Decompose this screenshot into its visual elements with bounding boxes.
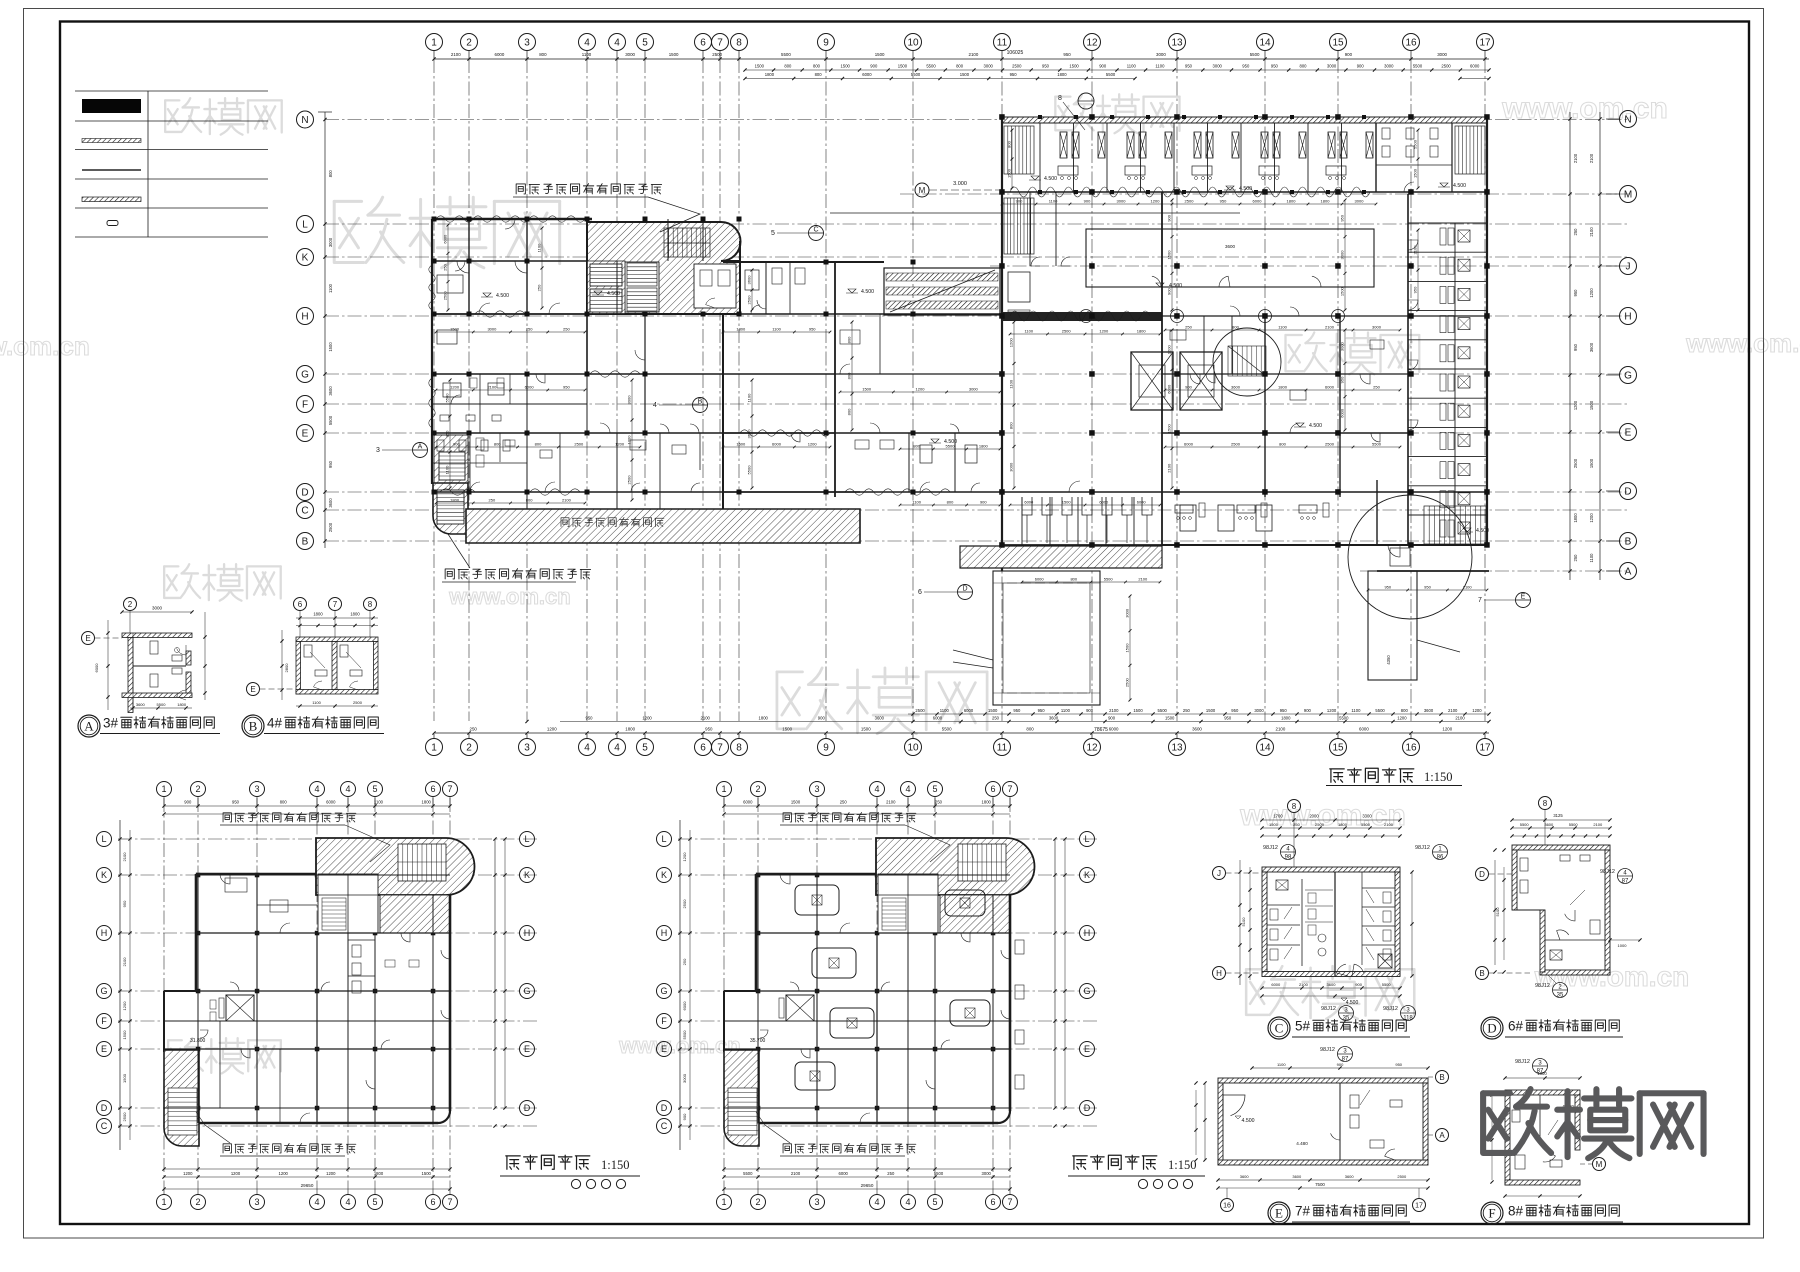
svg-text:8: 8: [1543, 799, 1548, 808]
svg-text:950: 950: [445, 430, 450, 437]
svg-text:5500: 5500: [1382, 982, 1392, 987]
svg-text:1800: 1800: [625, 727, 635, 732]
svg-text:4.500: 4.500: [1453, 183, 1466, 189]
svg-text:1800: 1800: [1321, 199, 1331, 204]
svg-text:2100: 2100: [1276, 727, 1286, 732]
svg-text:3600: 3600: [875, 716, 885, 721]
svg-text:1100: 1100: [1008, 379, 1013, 388]
svg-text:2500: 2500: [712, 52, 722, 57]
svg-text:5500: 5500: [157, 702, 167, 707]
svg-text:4: 4: [345, 784, 350, 794]
svg-text:5500: 5500: [1413, 64, 1423, 69]
svg-text:98J12: 98J12: [1515, 1059, 1530, 1065]
svg-text:1: 1: [431, 38, 437, 49]
svg-text:950: 950: [1224, 716, 1232, 721]
svg-text:F: F: [101, 1016, 107, 1026]
svg-text:10: 10: [907, 743, 919, 754]
svg-text:6000: 6000: [326, 800, 336, 805]
svg-text:1100: 1100: [1061, 708, 1071, 713]
svg-text:3000: 3000: [1254, 708, 1264, 713]
svg-text:3000: 3000: [682, 1073, 687, 1083]
svg-text:6000: 6000: [1137, 500, 1147, 505]
svg-text:3600: 3600: [1049, 716, 1059, 721]
svg-text:5500: 5500: [1569, 822, 1579, 827]
svg-text:5500: 5500: [1520, 822, 1530, 827]
svg-text:3000: 3000: [1384, 64, 1394, 69]
svg-text:250: 250: [840, 800, 848, 805]
svg-text:6000: 6000: [1339, 408, 1344, 418]
svg-text:K: K: [1084, 870, 1090, 880]
svg-text:2100: 2100: [1413, 245, 1418, 255]
svg-text:4.500: 4.500: [1239, 186, 1252, 192]
svg-text:2100: 2100: [1384, 822, 1394, 827]
svg-text:2500: 2500: [1125, 677, 1130, 687]
svg-text:2100: 2100: [562, 498, 572, 503]
svg-text:3600: 3600: [1292, 1174, 1302, 1179]
svg-text:5: 5: [372, 1197, 377, 1207]
svg-text:900: 900: [1185, 385, 1192, 390]
svg-text:3000: 3000: [1355, 199, 1365, 204]
svg-text:E: E: [661, 1044, 667, 1054]
svg-text:1500: 1500: [862, 387, 872, 392]
svg-text:35: 35: [1343, 1016, 1350, 1022]
svg-text:1200: 1200: [1167, 345, 1172, 355]
svg-text:118: 118: [1403, 1016, 1413, 1022]
svg-text:900: 900: [1345, 52, 1353, 57]
svg-text:3000: 3000: [1124, 608, 1129, 618]
svg-text:900: 900: [1108, 716, 1116, 721]
svg-text:www.om.cn: www.om.cn: [1685, 328, 1800, 358]
svg-text:H: H: [101, 928, 108, 938]
svg-text:D: D: [1624, 487, 1631, 498]
svg-text:1200: 1200: [1589, 513, 1594, 523]
svg-text:J: J: [1217, 869, 1221, 878]
svg-text:1200: 1200: [183, 1171, 193, 1176]
svg-text:1500: 1500: [755, 64, 765, 69]
svg-text:1200: 1200: [682, 852, 687, 862]
svg-text:1100: 1100: [1127, 64, 1137, 69]
svg-text:K: K: [524, 870, 530, 880]
svg-text:A: A: [418, 444, 423, 451]
svg-text:4: 4: [314, 784, 319, 794]
svg-text:950: 950: [1242, 64, 1250, 69]
svg-text:950: 950: [1220, 199, 1227, 204]
svg-text:950: 950: [232, 800, 240, 805]
svg-text:N: N: [301, 115, 308, 126]
svg-text:950: 950: [1271, 64, 1279, 69]
svg-text:1500: 1500: [1069, 64, 1079, 69]
svg-text:3.000: 3.000: [953, 181, 967, 187]
svg-text:1200: 1200: [326, 1171, 336, 1176]
svg-text:1500: 1500: [1133, 708, 1143, 713]
svg-text:950: 950: [1339, 214, 1344, 221]
svg-text:1800: 1800: [1278, 385, 1288, 390]
svg-text:98: 98: [1285, 855, 1292, 861]
svg-text:2100: 2100: [1589, 227, 1594, 237]
svg-text:5100: 5100: [1241, 917, 1246, 927]
svg-text:1100: 1100: [772, 327, 781, 332]
svg-text:950: 950: [1013, 708, 1021, 713]
svg-text:250: 250: [1293, 822, 1300, 827]
svg-text:H: H: [301, 312, 308, 323]
svg-text:98J12: 98J12: [1263, 845, 1278, 851]
svg-text:98J12: 98J12: [1320, 1047, 1335, 1053]
svg-text:6000: 6000: [525, 385, 535, 390]
svg-text:1200: 1200: [1327, 708, 1337, 713]
svg-text:1200: 1200: [1009, 338, 1014, 348]
svg-text:3: 3: [814, 784, 819, 794]
svg-text:800: 800: [328, 170, 333, 178]
svg-text:C: C: [301, 506, 308, 517]
svg-text:1200: 1200: [1573, 400, 1578, 410]
svg-text:B: B: [1625, 537, 1632, 548]
svg-text:6000: 6000: [839, 1171, 849, 1176]
svg-text:950: 950: [328, 460, 333, 468]
svg-text:2500: 2500: [1573, 458, 1578, 468]
svg-text:E: E: [1521, 594, 1526, 601]
svg-text:1: 1: [161, 784, 166, 794]
svg-text:1800: 1800: [177, 702, 187, 707]
svg-text:2100: 2100: [1138, 577, 1148, 582]
svg-text:250: 250: [563, 327, 570, 332]
svg-text:250: 250: [1183, 708, 1191, 713]
svg-text:6000: 6000: [1024, 500, 1034, 505]
svg-text:B: B: [698, 399, 703, 406]
svg-text:1500: 1500: [960, 72, 970, 77]
svg-text:3000: 3000: [982, 1171, 992, 1176]
svg-text:250: 250: [489, 498, 496, 503]
svg-text:31.800: 31.800: [190, 1038, 206, 1044]
svg-text:800: 800: [535, 442, 542, 447]
svg-text:H: H: [1216, 969, 1222, 978]
svg-text:www.om.cn: www.om.cn: [618, 1033, 740, 1058]
svg-text:15: 15: [1332, 743, 1344, 754]
svg-text:800: 800: [784, 64, 792, 69]
svg-text:106025: 106025: [1007, 50, 1024, 56]
svg-text:2100: 2100: [1593, 822, 1603, 827]
svg-text:3000: 3000: [328, 237, 333, 247]
svg-text:4#: 4#: [267, 716, 283, 731]
svg-text:1200: 1200: [916, 387, 926, 392]
svg-text:A: A: [1625, 567, 1632, 578]
svg-text:E: E: [1275, 1206, 1283, 1221]
svg-text:5: 5: [642, 743, 648, 754]
svg-text:250: 250: [1373, 385, 1380, 390]
svg-text:900: 900: [1086, 708, 1094, 713]
svg-text:G: G: [1624, 371, 1632, 382]
svg-text:1700: 1700: [1273, 814, 1283, 819]
svg-text:L: L: [1084, 834, 1089, 844]
svg-text:D: D: [301, 488, 308, 499]
svg-text:2800: 2800: [284, 663, 289, 673]
svg-text:950: 950: [1063, 52, 1071, 57]
svg-text:87: 87: [1622, 879, 1629, 885]
svg-text:17: 17: [1479, 38, 1491, 49]
svg-text:F: F: [661, 1016, 667, 1026]
svg-text:4: 4: [345, 1197, 350, 1207]
svg-text:3600: 3600: [747, 275, 752, 285]
svg-text:5500: 5500: [934, 1171, 944, 1176]
svg-text:800: 800: [847, 336, 852, 343]
svg-text:98J12: 98J12: [1535, 983, 1550, 989]
svg-text:5500: 5500: [1158, 708, 1168, 713]
svg-text:4: 4: [905, 1197, 910, 1207]
svg-text:800: 800: [947, 500, 954, 505]
svg-text:E: E: [85, 634, 90, 643]
svg-text:5500: 5500: [1361, 822, 1371, 827]
svg-text:1200: 1200: [642, 716, 652, 721]
svg-text:5: 5: [771, 230, 775, 237]
svg-text:H: H: [1084, 928, 1091, 938]
svg-text:B: B: [249, 719, 258, 734]
svg-text:950: 950: [1231, 708, 1239, 713]
svg-text:3125: 3125: [1553, 813, 1563, 818]
svg-text:1200: 1200: [450, 385, 460, 390]
svg-text:2500: 2500: [1441, 64, 1451, 69]
svg-text:78675: 78675: [1094, 727, 1108, 733]
svg-text:2100: 2100: [487, 385, 497, 390]
svg-text:4: 4: [614, 743, 620, 754]
svg-text:K: K: [302, 253, 309, 264]
svg-text:5500: 5500: [1339, 716, 1349, 721]
svg-text:3600: 3600: [1225, 244, 1236, 249]
svg-text:3000: 3000: [1008, 462, 1013, 472]
svg-text:35.700: 35.700: [750, 1038, 766, 1044]
svg-text:950: 950: [563, 385, 570, 390]
svg-text:4.500: 4.500: [944, 439, 957, 445]
svg-text:1800: 1800: [1137, 329, 1147, 334]
svg-text:3600: 3600: [1231, 385, 1241, 390]
svg-text:1500: 1500: [122, 1073, 127, 1083]
svg-text:250: 250: [537, 284, 542, 291]
svg-text:16: 16: [1405, 38, 1417, 49]
svg-text:3000: 3000: [152, 606, 163, 611]
svg-text:1500: 1500: [988, 708, 998, 713]
svg-text:3: 3: [254, 1197, 259, 1207]
svg-text:950: 950: [122, 900, 127, 907]
svg-text:3#: 3#: [103, 716, 119, 731]
svg-text:1200: 1200: [1151, 199, 1161, 204]
svg-text:3600: 3600: [1240, 1174, 1250, 1179]
svg-text:16: 16: [1405, 743, 1417, 754]
svg-text:1100: 1100: [1155, 64, 1165, 69]
svg-text:6: 6: [990, 784, 995, 794]
svg-text:4.500: 4.500: [496, 293, 509, 299]
svg-text:2: 2: [195, 784, 200, 794]
svg-text:2100: 2100: [1573, 153, 1578, 163]
svg-text:7: 7: [447, 1197, 452, 1207]
svg-text:800: 800: [1007, 140, 1012, 147]
svg-text:6000: 6000: [1253, 199, 1263, 204]
svg-text:5500: 5500: [682, 1030, 687, 1040]
svg-text:2500: 2500: [1325, 442, 1335, 447]
svg-text:6000: 6000: [1470, 64, 1480, 69]
svg-text:800: 800: [1026, 727, 1034, 732]
svg-text:5500: 5500: [747, 465, 752, 475]
svg-text:2500: 2500: [353, 700, 363, 705]
svg-text:900: 900: [870, 64, 878, 69]
svg-text:H: H: [1624, 312, 1631, 323]
svg-text:800: 800: [815, 72, 823, 77]
svg-text:6000: 6000: [1325, 385, 1335, 390]
svg-text:1:150: 1:150: [601, 1158, 629, 1172]
svg-text:1500: 1500: [1589, 458, 1594, 468]
svg-text:9: 9: [823, 38, 829, 49]
svg-text:6000: 6000: [682, 1001, 687, 1011]
svg-text:6000: 6000: [772, 442, 782, 447]
svg-text:1100: 1100: [312, 700, 321, 705]
svg-text:1500: 1500: [1589, 400, 1594, 410]
svg-text:3000: 3000: [1327, 64, 1337, 69]
svg-text:1200: 1200: [1589, 288, 1594, 298]
svg-text:800: 800: [913, 444, 920, 449]
svg-text:900: 900: [1016, 199, 1023, 204]
svg-text:4.500: 4.500: [861, 289, 874, 295]
svg-text:5500: 5500: [1106, 72, 1116, 77]
svg-text:D: D: [962, 586, 967, 593]
svg-text:8: 8: [1292, 802, 1297, 811]
svg-text:D: D: [1084, 1103, 1091, 1113]
svg-text:3000: 3000: [627, 395, 632, 405]
svg-text:1500: 1500: [861, 727, 871, 732]
svg-text:12: 12: [1086, 743, 1098, 754]
svg-text:5500: 5500: [781, 52, 791, 57]
svg-text:6000: 6000: [933, 716, 943, 721]
svg-text:5500: 5500: [1375, 708, 1385, 713]
svg-text:5: 5: [372, 784, 377, 794]
svg-text:800: 800: [847, 372, 852, 379]
svg-text:1200: 1200: [1397, 716, 1407, 721]
svg-text:900: 900: [818, 716, 826, 721]
svg-text:3000: 3000: [1117, 199, 1127, 204]
svg-text:250: 250: [992, 716, 1000, 721]
svg-text:4.500: 4.500: [1309, 423, 1322, 429]
svg-text:1100: 1100: [1024, 329, 1033, 334]
svg-text:5500: 5500: [942, 727, 952, 732]
svg-text:950: 950: [1038, 708, 1046, 713]
svg-text:6000: 6000: [1035, 577, 1045, 582]
svg-text:2500: 2500: [442, 291, 447, 301]
svg-text:L: L: [101, 834, 106, 844]
svg-text:250: 250: [443, 263, 448, 270]
svg-text:1500: 1500: [328, 342, 333, 352]
svg-text:1100: 1100: [1278, 325, 1287, 330]
svg-text:2100: 2100: [122, 957, 127, 967]
svg-text:900: 900: [453, 442, 460, 447]
svg-text:5500: 5500: [328, 415, 333, 425]
svg-text:98J12: 98J12: [1600, 869, 1615, 875]
svg-text:2100: 2100: [886, 800, 896, 805]
svg-text:2100: 2100: [1448, 708, 1458, 713]
svg-text:800: 800: [956, 64, 964, 69]
svg-text:1500: 1500: [1167, 424, 1172, 434]
svg-text:1500: 1500: [1007, 168, 1012, 178]
svg-text:M: M: [1596, 1160, 1603, 1169]
svg-text:800: 800: [526, 498, 533, 503]
svg-text:7: 7: [333, 600, 338, 609]
svg-text:K: K: [661, 870, 667, 880]
svg-text:6000: 6000: [1099, 500, 1109, 505]
svg-text:2100: 2100: [451, 52, 461, 57]
svg-text:C: C: [1275, 1021, 1284, 1036]
svg-text:1200: 1200: [1099, 329, 1109, 334]
svg-text:3: 3: [524, 743, 530, 754]
svg-text:98J12: 98J12: [1321, 1006, 1336, 1012]
svg-text:3: 3: [524, 38, 530, 49]
svg-text:www.om.cn: www.om.cn: [1501, 92, 1668, 125]
svg-text:7: 7: [717, 38, 723, 49]
svg-text:6000: 6000: [1184, 442, 1194, 447]
svg-text:2500: 2500: [1231, 442, 1241, 447]
svg-text:800: 800: [494, 442, 501, 447]
svg-text:C: C: [101, 1121, 108, 1131]
svg-text:1500: 1500: [875, 52, 885, 57]
svg-text:1200: 1200: [122, 1001, 127, 1011]
svg-text:2: 2: [466, 743, 472, 754]
svg-text:2100: 2100: [1299, 982, 1309, 987]
svg-text:4: 4: [584, 38, 590, 49]
svg-text:1100: 1100: [940, 708, 950, 713]
svg-text:1000: 1000: [1618, 943, 1628, 948]
svg-text:10: 10: [907, 38, 919, 49]
svg-text:D: D: [661, 1103, 668, 1113]
svg-text:1100: 1100: [582, 52, 592, 57]
svg-text:35: 35: [1557, 993, 1564, 999]
svg-text:900: 900: [184, 800, 192, 805]
svg-text:4: 4: [874, 1197, 879, 1207]
svg-text:900: 900: [1084, 199, 1091, 204]
svg-text:1500: 1500: [841, 64, 851, 69]
svg-text:C: C: [813, 227, 818, 234]
svg-text:2500: 2500: [1315, 822, 1325, 827]
svg-text:3600: 3600: [328, 386, 333, 396]
svg-text:5500: 5500: [743, 1171, 753, 1176]
svg-text:1800: 1800: [450, 498, 460, 503]
svg-text:N: N: [1624, 115, 1631, 126]
svg-text:4.500: 4.500: [1044, 176, 1057, 182]
svg-text:1: 1: [721, 784, 726, 794]
svg-text:1500: 1500: [669, 52, 679, 57]
svg-text:950: 950: [1280, 708, 1288, 713]
svg-text:2500: 2500: [328, 522, 333, 532]
svg-text:3000: 3000: [984, 64, 994, 69]
svg-text:1100: 1100: [537, 243, 542, 252]
svg-text:1800: 1800: [982, 800, 992, 805]
svg-text:2500: 2500: [1397, 1174, 1407, 1179]
svg-text:3300: 3300: [1362, 814, 1372, 819]
svg-text:3000: 3000: [625, 52, 635, 57]
svg-text:D: D: [101, 1103, 108, 1113]
svg-text:950: 950: [809, 327, 816, 332]
svg-text:5500: 5500: [926, 64, 936, 69]
svg-text:2000: 2000: [1309, 814, 1319, 819]
svg-text:1500: 1500: [1269, 822, 1279, 827]
svg-text:5#: 5#: [1295, 1019, 1311, 1034]
svg-text:3000: 3000: [1340, 250, 1345, 260]
svg-text:6: 6: [430, 784, 435, 794]
svg-text:4: 4: [614, 38, 620, 49]
svg-text:5: 5: [642, 38, 648, 49]
svg-text:8: 8: [1058, 95, 1062, 102]
svg-text:3600: 3600: [1345, 1174, 1355, 1179]
svg-text:1500: 1500: [898, 64, 908, 69]
svg-text:250: 250: [1185, 325, 1192, 330]
svg-text:950: 950: [1573, 289, 1578, 297]
svg-text:1500: 1500: [791, 800, 801, 805]
svg-text:800: 800: [813, 64, 821, 69]
svg-text:1:150: 1:150: [1168, 1158, 1196, 1172]
svg-text:8: 8: [736, 743, 742, 754]
